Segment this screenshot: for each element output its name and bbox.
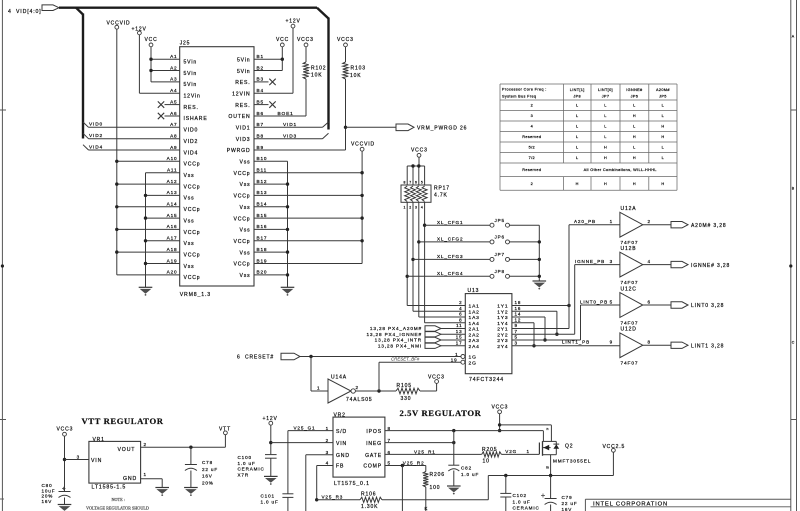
- svg-text:VIN: VIN: [336, 441, 347, 447]
- svg-text:A3: A3: [170, 77, 177, 82]
- svg-text:System Bus Freq: System Bus Freq: [502, 95, 536, 99]
- svg-text:1A2: 1A2: [469, 309, 480, 315]
- svg-text:A: A: [792, 35, 795, 39]
- svg-text:B4: B4: [257, 88, 264, 93]
- capacitor C82 1.0uF: [447, 431, 479, 495]
- svg-text:10K: 10K: [311, 73, 322, 79]
- ground VR1 GND pin: [141, 472, 169, 496]
- svg-text:ISHARE: ISHARE: [184, 116, 208, 122]
- svg-text:A14: A14: [167, 202, 178, 207]
- svg-text:4.7K: 4.7K: [434, 193, 448, 199]
- svg-text:LINT0 3,28: LINT0 3,28: [691, 303, 724, 309]
- buffer U13 74FCT3244: [451, 288, 522, 383]
- svg-text:20%: 20%: [202, 480, 214, 485]
- svg-text:2Y4: 2Y4: [497, 344, 508, 350]
- svg-text:RES.: RES.: [235, 80, 250, 86]
- svg-text:H: H: [604, 146, 607, 150]
- svg-text:1.30K: 1.30K: [361, 504, 378, 510]
- svg-text:A2: A2: [170, 65, 177, 70]
- wire CRESET# to 1G and U14A: [237, 353, 461, 391]
- svg-text:3: 3: [415, 206, 417, 210]
- svg-text:XL_CFG4: XL_CFG4: [437, 271, 463, 276]
- svg-text:A10: A10: [167, 156, 178, 161]
- wire CRESET_BF# net: [355, 357, 461, 393]
- svg-text:VRM_PWRGD 26: VRM_PWRGD 26: [417, 126, 467, 132]
- power +12V A-side: [132, 27, 147, 94]
- svg-text:JP8: JP8: [573, 95, 581, 99]
- svg-text:LINT0_PB: LINT0_PB: [580, 299, 608, 304]
- table processor core freq jumper settings: [500, 84, 677, 190]
- svg-text:8: 8: [388, 426, 391, 431]
- svg-text:U12B: U12B: [621, 246, 637, 252]
- svg-text:74ALS05: 74ALS05: [346, 397, 373, 403]
- svg-text:Vss: Vss: [239, 205, 250, 211]
- svg-text:VID1: VID1: [283, 122, 297, 128]
- resistor R103 10K (VCC3 pullup on PWRGD): [337, 37, 366, 150]
- svg-text:RP17: RP17: [434, 186, 450, 192]
- svg-text:16: 16: [515, 306, 522, 311]
- capacitor C100 1.0uF ceramic: [238, 455, 278, 485]
- svg-text:L: L: [662, 146, 664, 150]
- svg-text:1: 1: [403, 206, 405, 210]
- svg-text:VCC3: VCC3: [337, 37, 354, 43]
- svg-text:B10: B10: [257, 156, 268, 161]
- svg-text:PWRGD: PWRGD: [227, 148, 251, 154]
- svg-text:VCCp: VCCp: [184, 207, 201, 213]
- svg-text:L: L: [604, 125, 606, 129]
- power VCC A-side: [145, 37, 158, 82]
- svg-text:C78: C78: [202, 460, 213, 465]
- svg-text:VCC3: VCC3: [297, 37, 314, 43]
- svg-text:Vss: Vss: [239, 182, 250, 188]
- svg-text:74FCT3244: 74FCT3244: [469, 377, 504, 383]
- wire IPOS to VCC3 and Q2 drain: [385, 429, 544, 432]
- wire U13 outputs to U12 buffers: [512, 219, 620, 347]
- svg-text:7: 7: [409, 181, 411, 185]
- svg-text:L: L: [576, 156, 578, 160]
- svg-text:H: H: [661, 135, 664, 139]
- resistor R205 10: [482, 447, 502, 464]
- svg-text:22 uF: 22 uF: [562, 501, 578, 506]
- power VCCVID left rail: [107, 21, 131, 275]
- regulator VR2 LT1575_0.1: [326, 413, 391, 488]
- svg-text:V25_R2: V25_R2: [403, 460, 425, 465]
- wire GATE V25_R1: [385, 449, 482, 454]
- svg-text:U12C: U12C: [621, 286, 637, 292]
- svg-text:JP5: JP5: [659, 95, 667, 99]
- svg-text:18: 18: [515, 300, 522, 305]
- svg-text:H: H: [633, 135, 636, 139]
- svg-text:3: 3: [515, 340, 518, 345]
- svg-text:6: 6: [415, 181, 417, 185]
- svg-text:A18: A18: [167, 247, 178, 252]
- svg-text:A16: A16: [167, 224, 178, 229]
- svg-text:Reserved: Reserved: [522, 168, 541, 172]
- svg-text:VID3: VID3: [236, 137, 251, 143]
- svg-text:7/2: 7/2: [529, 156, 535, 160]
- bus VID[4:0]: [8, 5, 329, 150]
- svg-text:CRESET_BF#: CRESET_BF#: [391, 357, 420, 362]
- svg-text:10K: 10K: [350, 73, 361, 79]
- text note voltage regulator: [86, 497, 149, 511]
- svg-text:B3: B3: [257, 77, 264, 82]
- power VCC3 at R105: [428, 375, 445, 384]
- svg-text:V2G: V2G: [505, 449, 517, 454]
- svg-text:5Vin: 5Vin: [237, 69, 251, 75]
- svg-text:13,28 PX4_A20M#: 13,28 PX4_A20M#: [370, 326, 422, 331]
- svg-text:1.0 uF: 1.0 uF: [238, 461, 256, 466]
- svg-text:16V: 16V: [202, 474, 213, 479]
- svg-text:L: L: [662, 114, 664, 118]
- svg-text:A19: A19: [167, 258, 178, 263]
- svg-text:16V: 16V: [42, 499, 53, 504]
- svg-text:5Vin: 5Vin: [237, 57, 251, 63]
- svg-text:U13: U13: [468, 288, 480, 294]
- svg-text:B: B: [792, 187, 795, 191]
- svg-text:H: H: [633, 114, 636, 118]
- svg-text:U12D: U12D: [621, 327, 637, 333]
- resistor R106 1.30K: [360, 491, 488, 510]
- svg-text:IPOS: IPOS: [366, 429, 382, 435]
- text VTT REGULATOR title: [82, 416, 164, 426]
- ground A-side Vss: [139, 173, 153, 296]
- svg-text:MMFT3055EL: MMFT3055EL: [553, 458, 591, 463]
- svg-text:Vss: Vss: [184, 241, 195, 247]
- capacitor C80 10uF: [42, 483, 72, 511]
- svg-text:J25: J25: [180, 40, 191, 46]
- svg-text:JP7: JP7: [602, 95, 610, 99]
- svg-text:B6: B6: [257, 111, 264, 116]
- svg-text:2A2: 2A2: [469, 332, 480, 338]
- svg-text:V25_G1: V25_G1: [294, 426, 316, 431]
- sheet connectors PX4_A20M#/IGNNE#/INTR/NMI: [366, 326, 465, 349]
- svg-text:5/2: 5/2: [529, 146, 535, 150]
- svg-text:B18: B18: [257, 247, 268, 252]
- svg-text:VID0: VID0: [89, 122, 103, 128]
- power VCCVID right rail: [351, 141, 375, 263]
- svg-text:INEG: INEG: [366, 441, 382, 447]
- svg-text:8: 8: [459, 317, 462, 322]
- power VTT node: [219, 427, 231, 435]
- svg-text:B2: B2: [257, 65, 264, 70]
- resistor R105 330: [396, 383, 437, 402]
- svg-text:8: 8: [648, 340, 651, 345]
- svg-text:2A1: 2A1: [469, 327, 480, 333]
- svg-text:H: H: [661, 182, 664, 186]
- svg-text:2Y2: 2Y2: [497, 332, 508, 338]
- svg-text:Vss: Vss: [239, 160, 250, 166]
- svg-text:C79: C79: [562, 495, 573, 500]
- svg-text:1A3: 1A3: [469, 315, 480, 321]
- svg-text:JP8: JP8: [495, 269, 505, 274]
- svg-text:R102: R102: [311, 66, 326, 72]
- svg-text:LINT[0]: LINT[0]: [598, 88, 613, 92]
- svg-text:2: 2: [531, 182, 533, 186]
- svg-text:NOTE :: NOTE :: [112, 497, 125, 502]
- power VCC B-side: [276, 37, 289, 70]
- svg-text:C: C: [792, 341, 795, 345]
- capacitor C79 22uF: [541, 476, 578, 511]
- svg-text:GND: GND: [123, 476, 137, 482]
- svg-text:A11: A11: [167, 168, 178, 173]
- svg-text:2A4: 2A4: [469, 344, 480, 350]
- svg-text:A20: A20: [167, 270, 178, 275]
- capacitor C101 1.0uF: [261, 493, 294, 511]
- svg-text:BOE1: BOE1: [278, 111, 294, 117]
- svg-text:GATE: GATE: [365, 453, 382, 459]
- svg-text:VRM8_1.3: VRM8_1.3: [180, 292, 211, 298]
- svg-text:VID0: VID0: [184, 128, 199, 134]
- svg-text:A15: A15: [167, 213, 178, 218]
- connector J25: [158, 40, 276, 298]
- svg-text:8: 8: [403, 181, 405, 185]
- svg-text:Vss: Vss: [184, 218, 195, 224]
- svg-text:LT1575_0.1: LT1575_0.1: [334, 481, 370, 487]
- svg-text:1Y1: 1Y1: [497, 304, 508, 310]
- wire V25_G1 S/D net: [288, 426, 333, 494]
- svg-text:B19: B19: [257, 258, 268, 263]
- svg-text:LINT[1]: LINT[1]: [570, 88, 585, 92]
- svg-text:All Other Combinations, WILL-H: All Other Combinations, WILL-HHHL: [584, 168, 657, 172]
- svg-text:C82: C82: [461, 465, 472, 470]
- svg-text:A5: A5: [170, 99, 177, 104]
- svg-text:15: 15: [456, 335, 463, 340]
- svg-text:VID1: VID1: [236, 126, 251, 132]
- power VCC3 VTT regulator: [57, 427, 74, 492]
- svg-text:1: 1: [317, 385, 320, 390]
- svg-text:B11: B11: [257, 168, 268, 173]
- svg-text:VCCp: VCCp: [234, 262, 251, 268]
- svg-text:L: L: [576, 146, 578, 150]
- svg-text:4: 4: [459, 306, 462, 311]
- svg-text:Vss: Vss: [184, 173, 195, 179]
- inverter U14A 74ALS05: [328, 374, 373, 403]
- svg-text:JP6: JP6: [631, 95, 639, 99]
- resistor R102 10K (VCC3 pullup on OUTEN): [297, 37, 326, 116]
- svg-text:12VIN: 12VIN: [232, 92, 250, 98]
- wire V2G to Q2 gate: [501, 449, 539, 454]
- svg-text:1: 1: [326, 426, 329, 431]
- svg-text:13,28 PX4_NMI: 13,28 PX4_NMI: [378, 343, 422, 348]
- sheet connector VRM_PWRGD 26: [396, 124, 467, 132]
- svg-text:VCCVID: VCCVID: [351, 141, 375, 147]
- svg-text:22 uF: 22 uF: [202, 467, 218, 472]
- svg-text:B17: B17: [257, 236, 268, 241]
- svg-text:S/D: S/D: [336, 429, 347, 435]
- svg-text:B20: B20: [257, 270, 268, 275]
- svg-text:R105: R105: [397, 383, 412, 389]
- svg-text:1G: 1G: [469, 355, 477, 361]
- svg-text:L: L: [576, 125, 578, 129]
- svg-text:C101: C101: [261, 493, 275, 498]
- svg-text:1: 1: [610, 219, 613, 224]
- wire VR1 VOUT to VTT: [141, 435, 226, 449]
- svg-text:R206: R206: [430, 472, 445, 478]
- svg-text:2: 2: [326, 438, 329, 443]
- svg-text:L: L: [576, 135, 578, 139]
- svg-text:B13: B13: [257, 190, 268, 195]
- svg-text:CERAMIC: CERAMIC: [238, 467, 265, 472]
- svg-text:B14: B14: [257, 202, 268, 207]
- svg-text:LINT1 3,28: LINT1 3,28: [691, 343, 724, 349]
- svg-text:74F07: 74F07: [621, 280, 639, 286]
- svg-text:A9: A9: [170, 145, 177, 150]
- svg-text:B15: B15: [257, 213, 268, 218]
- svg-text:RES.: RES.: [235, 103, 250, 109]
- svg-text:A1: A1: [170, 54, 177, 59]
- svg-text:OUTEN: OUTEN: [228, 114, 250, 120]
- svg-text:L: L: [633, 125, 635, 129]
- svg-text:VCCp: VCCp: [184, 252, 201, 258]
- power +12V B-side: [286, 18, 301, 93]
- wire VCC3 to Q2 drain: [500, 424, 552, 426]
- svg-text:A12: A12: [167, 179, 178, 184]
- svg-text:VR2: VR2: [334, 413, 346, 419]
- svg-text:16V: 16V: [562, 507, 573, 511]
- svg-text:5Vin: 5Vin: [184, 71, 198, 77]
- svg-text:+12V: +12V: [286, 18, 301, 24]
- svg-text:VCCp: VCCp: [184, 275, 201, 281]
- svg-text:A20M#: A20M#: [656, 88, 670, 92]
- svg-text:GND: GND: [336, 453, 350, 459]
- svg-text:2: 2: [459, 300, 462, 305]
- svg-text:H: H: [604, 156, 607, 160]
- svg-text:XL_CFG1: XL_CFG1: [437, 220, 463, 225]
- svg-text:LINT1_PB: LINT1_PB: [562, 340, 590, 345]
- svg-text:L: L: [662, 104, 664, 108]
- svg-text:3: 3: [610, 259, 613, 264]
- svg-text:COMP: COMP: [363, 464, 382, 470]
- svg-text:B12: B12: [257, 179, 268, 184]
- svg-text:VTT REGULATOR: VTT REGULATOR: [82, 416, 164, 426]
- svg-text:2: 2: [144, 442, 147, 447]
- capacitor C78 22uF: [184, 447, 218, 496]
- svg-text:B9: B9: [257, 145, 264, 150]
- svg-text:FB: FB: [336, 464, 344, 470]
- svg-text:m: m: [546, 465, 549, 469]
- svg-text:JP6: JP6: [495, 235, 505, 240]
- svg-text:Processor Core Freq :: Processor Core Freq :: [502, 88, 547, 92]
- svg-text:A4: A4: [170, 88, 177, 93]
- svg-text:H: H: [604, 182, 607, 186]
- buffer U12D 74F07: [610, 327, 725, 367]
- wire J25 B-side pins: [254, 59, 362, 275]
- svg-text:VCC3: VCC3: [411, 148, 428, 154]
- svg-text:Vss: Vss: [184, 196, 195, 202]
- svg-text:IGNNE_PB: IGNNE_PB: [575, 259, 605, 264]
- svg-text:VID3: VID3: [283, 133, 297, 139]
- svg-text:A13: A13: [167, 190, 178, 195]
- wire V25_R2 COMP net: [385, 460, 426, 511]
- svg-text:VR1: VR1: [93, 437, 105, 443]
- svg-text:7: 7: [388, 438, 391, 443]
- svg-text:1A1: 1A1: [469, 304, 480, 310]
- svg-text:VCCp: VCCp: [234, 171, 251, 177]
- svg-text:10: 10: [483, 458, 490, 464]
- svg-text:2A3: 2A3: [469, 338, 480, 344]
- svg-text:VID4: VID4: [184, 150, 199, 156]
- svg-text:2Y1: 2Y1: [497, 327, 508, 333]
- wire VR2 FB down: [315, 466, 333, 502]
- svg-text:13,28 PX4_IGNNE#: 13,28 PX4_IGNNE#: [366, 332, 422, 337]
- svg-text:V25_R3: V25_R3: [322, 495, 344, 500]
- power VCC3 RP17: [407, 148, 428, 186]
- svg-text:1Y2: 1Y2: [497, 309, 508, 315]
- svg-text:H: H: [633, 182, 636, 186]
- svg-text:330: 330: [401, 396, 412, 402]
- transistor Q2 MMFT3055EL: [539, 425, 591, 475]
- svg-text:B8: B8: [257, 134, 264, 139]
- svg-text:4: 4: [326, 461, 329, 466]
- svg-text:17: 17: [456, 340, 463, 345]
- svg-text:IGNNE# 3,28: IGNNE# 3,28: [691, 263, 730, 269]
- svg-text:4: 4: [531, 125, 533, 129]
- ground jumper common: [533, 281, 547, 290]
- ground B-side Vss: [281, 161, 295, 295]
- svg-text:Vss: Vss: [239, 273, 250, 279]
- svg-text:VID2: VID2: [89, 133, 103, 139]
- title block INTEL CORPORATION: [585, 499, 790, 511]
- svg-text:2: 2: [531, 104, 533, 108]
- svg-text:R205: R205: [482, 447, 497, 453]
- buffer U12B 74F07: [610, 246, 731, 286]
- svg-text:VID2: VID2: [184, 139, 199, 145]
- svg-text:B5: B5: [257, 99, 264, 104]
- svg-text:K: K: [425, 506, 429, 511]
- power VCC3 2.5V regulator: [492, 404, 509, 432]
- svg-text:6: 6: [648, 299, 651, 304]
- svg-text:74F07: 74F07: [621, 320, 639, 326]
- svg-text:12Vin: 12Vin: [184, 94, 201, 100]
- svg-text:RES.: RES.: [184, 105, 199, 111]
- regulator VR1 LT1585-1.5: [89, 437, 141, 490]
- svg-text:2: 2: [409, 206, 411, 210]
- svg-text:1.0 uF: 1.0 uF: [513, 499, 531, 504]
- svg-text:13,28 PX4_INTR: 13,28 PX4_INTR: [375, 338, 422, 343]
- svg-text:5: 5: [610, 299, 613, 304]
- svg-text:A17: A17: [167, 236, 178, 241]
- resistor R206 100: [423, 466, 445, 511]
- svg-text:1Y3: 1Y3: [497, 315, 508, 321]
- svg-text:L: L: [633, 104, 635, 108]
- svg-text:6: 6: [237, 354, 241, 360]
- svg-text:2G: 2G: [469, 360, 477, 366]
- svg-text:3: 3: [77, 454, 80, 459]
- svg-text:4: 4: [648, 259, 651, 264]
- svg-text:CRESET#: CRESET#: [245, 354, 274, 360]
- svg-text:C100: C100: [238, 455, 252, 460]
- svg-text:VID4: VID4: [89, 144, 103, 150]
- net VID1/VID3/BOE1 labels: [278, 111, 298, 139]
- svg-text:VCCp: VCCp: [234, 239, 251, 245]
- svg-text:Vss: Vss: [184, 264, 195, 270]
- svg-text:U14A: U14A: [331, 374, 347, 380]
- wire +12V to VR2 VIN: [271, 442, 333, 444]
- svg-text:L: L: [604, 104, 606, 108]
- svg-text:VID[4:0]: VID[4:0]: [16, 9, 42, 15]
- svg-text:L: L: [576, 104, 578, 108]
- svg-text:VCC3: VCC3: [492, 404, 509, 410]
- svg-text:4: 4: [8, 9, 12, 15]
- svg-text:VIN: VIN: [91, 458, 102, 464]
- svg-text:1.0 uF: 1.0 uF: [261, 500, 279, 505]
- svg-text:L: L: [604, 135, 606, 139]
- svg-text:13: 13: [456, 329, 463, 334]
- svg-text:L: L: [604, 114, 606, 118]
- svg-text:5Vin: 5Vin: [184, 82, 198, 88]
- svg-text:VOLTAGE REGULATOR SHOULD: VOLTAGE REGULATOR SHOULD: [86, 506, 149, 511]
- wire VCC3 to VR1 VIN: [65, 454, 89, 459]
